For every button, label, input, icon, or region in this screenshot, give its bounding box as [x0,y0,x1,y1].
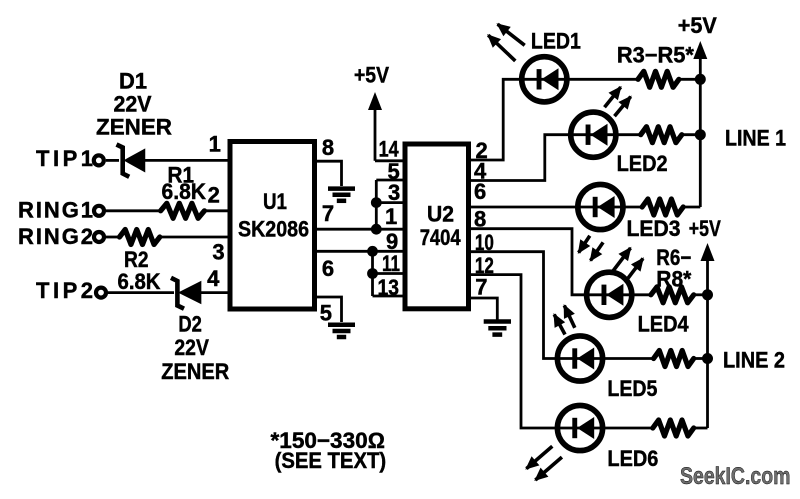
svg-text:1: 1 [209,132,221,157]
op-amp U1 SK2086 box [230,142,315,310]
label D1 22V ZENER [96,69,172,140]
svg-text:+5V: +5V [678,13,717,38]
ground (U1 pin 5) [328,325,355,337]
svg-text:11: 11 [382,251,400,276]
LED6 [557,405,602,450]
svg-text:(SEE TEXT): (SEE TEXT) [275,448,387,473]
wire LED2 to R4 [614,133,643,136]
junction dot pin 3 [371,197,382,208]
wire U2 pin 12 to LED6 [471,275,555,428]
wire LINE2 bus [706,295,709,428]
svg-text:LED1: LED1 [531,29,581,54]
wire LED3 to R5 [621,206,644,209]
svg-text:22V: 22V [114,92,152,117]
wire R5 to LINE1 bus [683,206,700,209]
ground (U1 pin 8) [328,189,355,201]
wire LINE1 bus [699,79,702,207]
label R1 6.8K [162,163,207,204]
LED3 light arrows [579,236,604,261]
svg-text:LED3: LED3 [627,216,681,241]
resistor R3 [638,71,679,87]
wire U2 pin 2 to LED1 [471,79,519,160]
wire LED1 to R3 [565,78,640,81]
wire U1 pin 6 to U2 bus [317,250,373,253]
wire U2 pin 11 [373,272,404,275]
svg-text:14: 14 [379,136,400,161]
svg-text:U1: U1 [263,189,287,214]
svg-text:LED6: LED6 [607,446,658,471]
wire R4 to LINE1 bus [682,133,701,136]
wire D2 to U1 pin 4 [201,291,228,294]
wire U1 pin 5 to ground [317,297,342,322]
node bus U2 pins 9-11-13 [371,251,374,296]
LED6 light arrows [526,446,562,480]
junction dot R3/LINE1 [695,74,706,85]
svg-text:6.8K: 6.8K [118,269,161,294]
svg-text:LED5: LED5 [607,376,657,401]
svg-text:R8*: R8* [656,266,691,291]
wire +5V to U2 pin 14 [375,159,403,162]
resistor R6 [651,287,694,303]
svg-text:4: 4 [207,266,220,291]
wire U2 pin 13 [373,295,404,298]
svg-text:3: 3 [388,180,400,205]
svg-text:5: 5 [320,301,332,326]
resistor R5 [642,199,683,215]
wire RING2 to R2 [106,236,120,239]
junction dot pin 11 [367,268,378,279]
wire R3 to LINE1 bus [679,78,700,81]
svg-text:7: 7 [322,201,334,226]
svg-text:6: 6 [322,256,334,281]
svg-text:3: 3 [212,239,224,264]
label D2 22V ZENER [161,312,229,385]
wire R2 to U1 pin 3 [160,236,228,239]
inverter U2 7404 box [405,144,469,309]
svg-text:RING1: RING1 [18,197,93,222]
svg-text:22V: 22V [174,335,209,360]
junction dot pin 9 [367,246,378,257]
wire TIP2 to D2 [108,291,174,294]
svg-text:R3−R5*: R3−R5* [617,43,694,68]
wire U2 pin 5 [376,179,403,182]
terminal RING2 [94,232,104,242]
resistor R7 [654,351,694,367]
wire TIP1 to D1 [106,159,119,162]
svg-text:LINE 2: LINE 2 [723,348,785,373]
svg-text:6.8K: 6.8K [162,179,207,204]
svg-text:ZENER: ZENER [96,115,172,140]
wire D1 to U1 pin 1 [145,159,229,162]
LED1 [522,57,567,102]
label R2 6.8K [118,247,161,294]
resistor R8 [653,420,694,436]
svg-text:U2: U2 [427,201,454,226]
wire R6 to LINE2 bus [694,293,708,296]
+5V arrow (middle) [368,92,382,161]
wire U2 pin 4 to LED2 [471,135,569,181]
LED2 light arrows [605,87,631,116]
terminal TIP2 [96,288,106,298]
svg-text:2: 2 [208,183,220,208]
svg-text:LED4: LED4 [638,311,690,336]
svg-text:1: 1 [385,204,397,229]
svg-text:SK2086: SK2086 [238,216,309,241]
LED5 light arrows [554,306,575,335]
zener diode D1 [117,145,145,177]
wire U2 pin 7 to ground [471,298,497,320]
wire R1 to U1 pin 2 [204,209,228,212]
svg-text:SeekIC.com: SeekIC.com [680,463,791,490]
wire U2 pin 6 to LED3 [471,206,576,209]
wire U2 pin 1 [376,228,403,231]
note *150-330 ohm (SEE TEXT) [271,428,387,473]
terminal RING1 [94,206,104,216]
LED4 [587,272,632,317]
wire LED6 to R8 [601,427,655,430]
node bus U2 pins 5-3-1 [375,180,378,229]
wire U2 pin 10 to LED5 [471,252,555,359]
svg-text:TIP2: TIP2 [36,278,93,303]
svg-text:LINE 1: LINE 1 [725,126,786,151]
label R6- R8* [656,245,691,291]
junction dot R6/LINE2 [702,289,713,300]
wire U1 pin 8 to ground [317,161,342,186]
wire U2 pin 9 [373,250,404,253]
resistor R1 [161,203,205,218]
svg-text:ZENER: ZENER [161,359,229,384]
+5V arrow (LINE2) [701,243,715,295]
svg-text:RING2: RING2 [18,224,93,249]
svg-text:D1: D1 [119,69,147,94]
svg-text:+5V: +5V [689,216,721,241]
svg-text:D2: D2 [178,312,202,337]
resistor R4 [641,127,682,143]
wire U1 pin 7 to U2 bus [317,228,376,231]
svg-text:6: 6 [474,179,486,204]
ground (U2 pin 7) [484,322,511,335]
LED5 [557,336,602,381]
wire R7 to LINE2 bus [694,357,708,360]
wire LED5 to R7 [601,357,656,360]
wire RING1 to R1 [106,209,161,212]
wire R8 to LINE2 bus [694,427,708,430]
svg-text:13: 13 [378,275,400,300]
junction dot R4/LINE1 [695,129,706,140]
zener diode D2 [171,278,201,309]
wire U2 pin 8 to LED4 [471,229,584,295]
LED3 [578,184,623,229]
svg-text:+5V: +5V [354,62,389,87]
wire U2 pin 3 [376,201,403,204]
svg-text:LED2: LED2 [617,151,668,176]
wire LED4 to R6 [630,293,653,296]
resistor R2 [120,230,160,245]
LED2 [571,112,616,157]
terminal TIP1 [94,155,104,165]
svg-text:8: 8 [322,135,334,160]
junction dot R7/LINE2 [702,353,713,364]
svg-text:TIP1: TIP1 [36,146,93,171]
junction dot pin 1 [371,224,382,235]
LED1 light arrows [488,24,525,61]
svg-text:7404: 7404 [420,225,462,250]
LED4 light arrows [613,248,643,282]
+5V arrow (LINE1) [693,41,707,79]
